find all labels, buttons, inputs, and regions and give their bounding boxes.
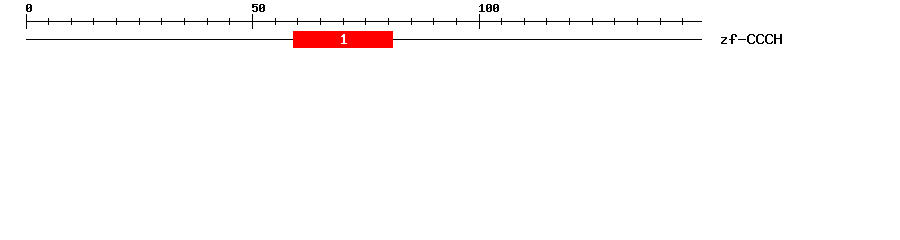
- ruler axis line: [26, 21, 702, 22]
- major tick 50: [252, 14, 253, 29]
- major tick 100: [479, 14, 480, 29]
- ruler label 0: [26, 4, 32, 12]
- domain name label zf-CCCH: [721, 34, 782, 44]
- major tick 0: [26, 14, 27, 29]
- background: [0, 0, 900, 58]
- ruler label 50: [252, 4, 265, 12]
- ruler label 100: [479, 4, 499, 12]
- domain box 1 (zf-CCCH, residues 59-81): [293, 31, 393, 48]
- protein backbone line: [26, 39, 702, 40]
- domain number 1: [341, 34, 347, 44]
- minor ticks every 5 residues: [48, 18, 683, 25]
